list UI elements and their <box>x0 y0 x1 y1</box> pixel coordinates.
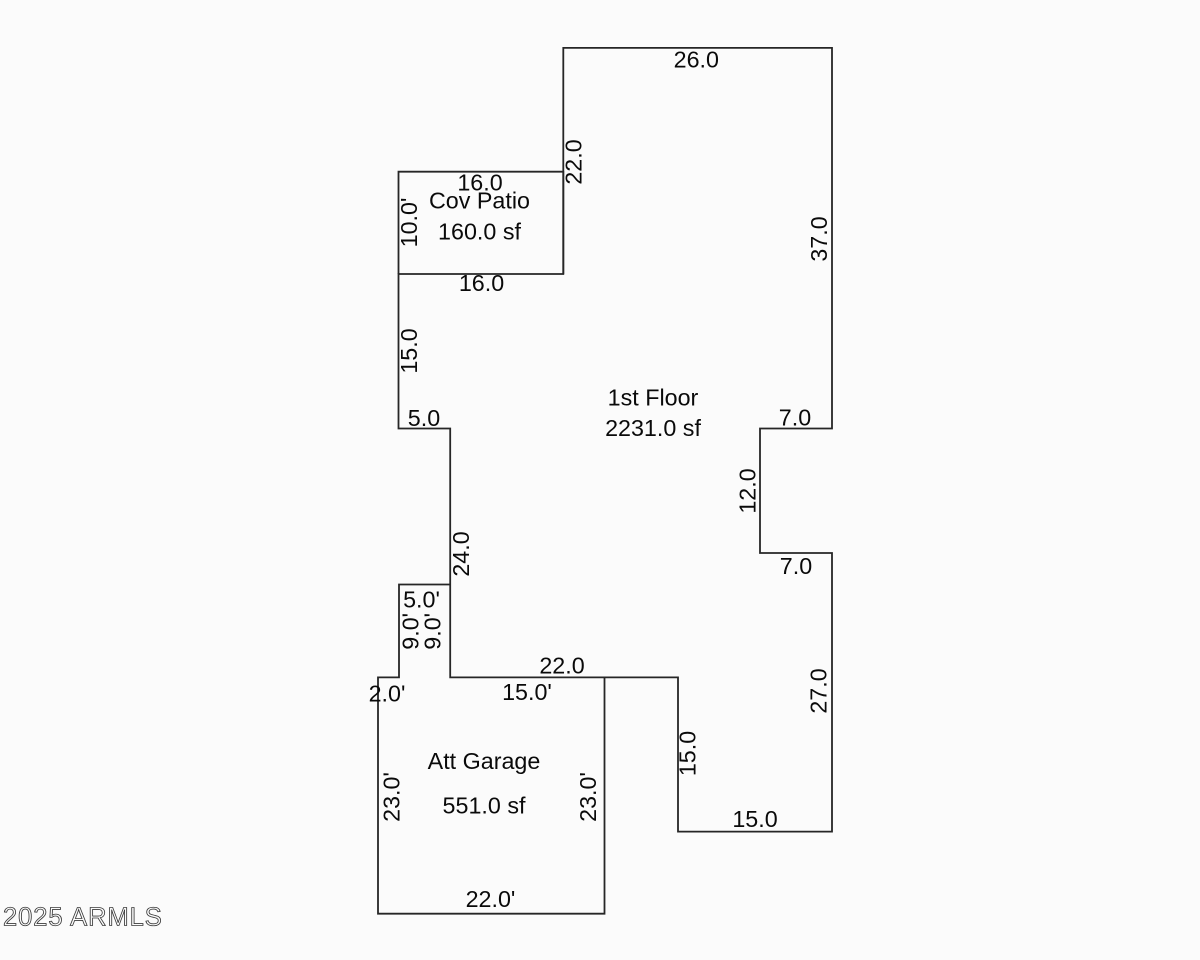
svg-text:23.0': 23.0' <box>575 772 601 822</box>
svg-text:37.0: 37.0 <box>806 216 832 261</box>
svg-text:9.0': 9.0' <box>420 613 446 650</box>
svg-text:7.0: 7.0 <box>779 405 811 431</box>
svg-text:15.0: 15.0 <box>732 806 777 832</box>
svg-text:22.0': 22.0' <box>466 886 516 912</box>
svg-text:2025 ARMLS: 2025 ARMLS <box>3 904 163 932</box>
svg-text:10.0': 10.0' <box>396 198 422 248</box>
svg-text:23.0': 23.0' <box>379 772 405 822</box>
svg-text:7.0: 7.0 <box>780 553 812 579</box>
svg-text:24.0: 24.0 <box>448 531 474 576</box>
svg-text:Cov Patio: Cov Patio <box>429 188 530 214</box>
svg-text:551.0 sf: 551.0 sf <box>443 793 526 819</box>
svg-text:15.0': 15.0' <box>502 679 552 705</box>
svg-text:Att Garage: Att Garage <box>428 748 541 774</box>
svg-text:22.0: 22.0 <box>539 653 584 679</box>
wall outline: Cov Patio <box>399 172 564 274</box>
svg-text:2231.0 sf: 2231.0 sf <box>605 415 701 441</box>
svg-text:22.0: 22.0 <box>561 139 587 184</box>
wall outline: Att Garage <box>378 585 605 914</box>
svg-text:5.0: 5.0 <box>408 405 440 431</box>
svg-text:5.0': 5.0' <box>403 586 440 612</box>
svg-text:12.0: 12.0 <box>735 468 761 513</box>
svg-text:160.0 sf: 160.0 sf <box>438 219 521 245</box>
svg-text:16.0: 16.0 <box>459 270 504 296</box>
svg-text:15.0: 15.0 <box>675 731 701 776</box>
svg-text:1st Floor: 1st Floor <box>608 384 699 410</box>
svg-text:15.0: 15.0 <box>396 328 422 373</box>
svg-text:27.0: 27.0 <box>806 668 832 713</box>
svg-text:2.0': 2.0' <box>369 681 406 707</box>
svg-text:26.0: 26.0 <box>674 47 719 73</box>
wall outline: 1st Floor <box>399 48 833 832</box>
